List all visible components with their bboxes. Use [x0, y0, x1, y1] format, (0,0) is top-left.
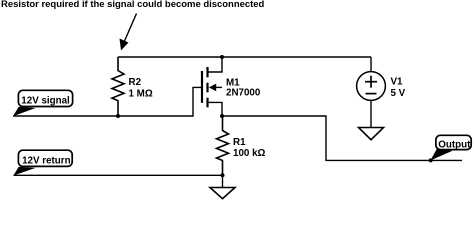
net label 12V return — [14, 150, 73, 175]
svg-text:V1: V1 — [391, 77, 404, 88]
node source junction — [220, 114, 224, 118]
ground (below V1) — [359, 128, 384, 140]
drain lead — [208, 57, 223, 72]
wire 12V signal net — [13, 87, 202, 116]
label M1 value — [226, 78, 261, 99]
label R2 value — [129, 77, 153, 100]
svg-text:12V return: 12V return — [22, 156, 70, 167]
wire 12V return net — [14, 174, 223, 176]
minus — [366, 93, 377, 95]
net label Output — [429, 135, 471, 162]
transistor M1 2N7000 — [202, 57, 222, 116]
channel segment source — [206, 98, 208, 108]
wire source to output — [222, 116, 462, 160]
node R1-return junction — [221, 173, 225, 177]
body arrow — [214, 86, 222, 88]
annotation arrow — [120, 14, 137, 51]
label R1 value — [233, 137, 266, 159]
gate bar — [201, 71, 203, 103]
source lead — [208, 102, 223, 116]
channel segment body — [206, 83, 208, 93]
svg-text:5 V: 5 V — [391, 88, 406, 99]
svg-text:Output: Output — [438, 139, 471, 150]
node R2-signal junction — [116, 114, 120, 118]
plus — [365, 81, 377, 83]
svg-text:Resistor required if the signa: Resistor required if the signal could be… — [1, 0, 265, 10]
svg-text:12V signal: 12V signal — [21, 96, 70, 107]
net label 12V signal — [13, 90, 73, 116]
svg-text:100 kΩ: 100 kΩ — [233, 148, 266, 159]
ground (below R1) — [210, 175, 235, 198]
svg-text:R2: R2 — [129, 77, 142, 88]
channel segment drain — [206, 67, 208, 77]
resistor R2 — [112, 57, 124, 116]
node drain-rail junction — [220, 55, 224, 59]
svg-text:1 MΩ: 1 MΩ — [129, 88, 153, 99]
resistor R1 — [217, 116, 229, 175]
wire top rail — [118, 56, 371, 58]
voltage source V1 — [357, 57, 386, 128]
svg-text:2N7000: 2N7000 — [226, 88, 261, 99]
label V1 value — [391, 77, 406, 99]
svg-text:R1: R1 — [233, 137, 246, 148]
